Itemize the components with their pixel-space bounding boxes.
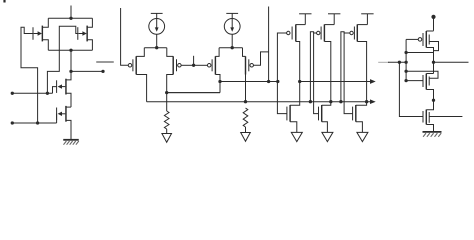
wire stage1 input stub (121, 8, 129, 65)
wire input B to M4 gate (56, 114, 58, 123)
transistor U3 (423, 110, 429, 125)
node stage2 left join (218, 80, 221, 83)
resistor R1 (164, 111, 169, 129)
wire P2B gate out (253, 52, 268, 65)
wire col1 gate feed (277, 33, 287, 114)
wire rail A (406, 52, 433, 54)
wire col2 gate feed (314, 33, 319, 114)
transistor U1 (418, 31, 429, 48)
wire U3 source lead (426, 125, 433, 132)
wire col1 stem (304, 14, 306, 25)
wire node A right (71, 70, 103, 72)
wire right stub down (433, 17, 435, 31)
node I2 out (231, 46, 234, 49)
transistor N2C (319, 105, 322, 122)
resistor R2 (243, 108, 248, 127)
wire R2 tail (245, 127, 247, 133)
node stage1 lower out (165, 91, 168, 94)
current source I2 (224, 13, 240, 47)
supply T-bar col2 (328, 13, 340, 15)
wire col2 drain vertical (322, 42, 331, 106)
wire col1 source lead (296, 24, 306, 26)
ground GND2 (162, 134, 172, 143)
node input B (11, 121, 14, 124)
wire U2 gate lead (406, 80, 423, 82)
node col2 feed (309, 100, 312, 103)
node inv1 out (298, 80, 301, 83)
wire P2B source (243, 48, 246, 57)
wire P2A drain (215, 75, 220, 93)
wire P1B gate to node (181, 64, 193, 66)
wire U3 drain lead (426, 100, 433, 109)
supply T-bar col1 (299, 13, 311, 15)
wire col2 nmos source (322, 122, 328, 133)
ground GND7 (hatched) (423, 132, 442, 137)
wire M2 drain lead (87, 18, 92, 27)
node input A junction (46, 92, 49, 95)
node input A (11, 92, 14, 95)
wire col3 nmos source (356, 122, 363, 133)
wire bottom rail (48, 49, 92, 51)
wire U3 gate feed (399, 62, 423, 116)
transistor N3C (353, 105, 356, 122)
current source I1 (149, 13, 165, 47)
wire stage2 node rail (219, 47, 242, 49)
ground GND1 (hatched) (63, 140, 79, 145)
transistor M2 (78, 26, 87, 42)
wire M3 drain lead (66, 71, 71, 80)
node inv2 out join (329, 100, 332, 103)
wire col2 source lead (324, 24, 334, 26)
wire supply stub (70, 6, 72, 19)
arrow output lower (370, 99, 376, 104)
transistor M4 (57, 106, 66, 122)
wire col3 stem (366, 14, 368, 25)
supply T-bar col3 (361, 13, 373, 15)
ground GND6 (357, 132, 368, 141)
wire U2 drain lead (426, 73, 433, 75)
node right terminal ball (431, 15, 435, 19)
wire P1A drain (136, 75, 146, 102)
node R2 top (244, 100, 247, 103)
wire U1 gate2 wrap (429, 42, 438, 51)
wire bus upper seg1 (220, 81, 278, 83)
wire U1 gate lead (406, 38, 418, 40)
node rail B tap (404, 61, 407, 64)
node rail A tap (404, 51, 407, 54)
wire col3 gate feed (344, 33, 353, 114)
node input B junction (36, 121, 39, 124)
ground GND4 (291, 132, 302, 141)
node stage1 out (192, 64, 195, 67)
wire U1-U2 link (433, 53, 435, 74)
net label stub (gray) (97, 61, 113, 63)
wire M2 gate cross-couple (47, 26, 77, 93)
wire P2B drain (245, 75, 247, 102)
wire stage1 node rail (144, 47, 167, 49)
wire stage2 out vertical (268, 7, 270, 82)
node col1 input (276, 80, 279, 83)
wire stage1 out to stage2 (194, 64, 208, 66)
wire col2 stem (333, 14, 335, 25)
wire M1 drain lead (42, 18, 48, 27)
node I1 out (155, 46, 158, 49)
wire U3 gate2 out (429, 116, 462, 118)
corner artifact (3, 0, 5, 3)
wire P1A source (136, 48, 144, 57)
transistor P1A (128, 56, 136, 74)
wire U2 source lead (426, 90, 433, 101)
transistor P2C (317, 24, 325, 41)
wire right gate vertical (405, 39, 407, 80)
transistor U2 (423, 74, 429, 90)
node U2-U3 join (432, 99, 435, 102)
wire col3 feed link (341, 32, 344, 102)
wire M4 drain lead (66, 106, 71, 108)
wire input B (12, 122, 56, 124)
transistor P1C (287, 24, 296, 41)
transistor M3 (57, 79, 66, 95)
wire bus lower (147, 101, 371, 103)
node A (69, 70, 72, 73)
node U2 gate2 tap (404, 70, 407, 73)
arrow output upper (370, 79, 376, 84)
wire U1 drain lead (426, 30, 433, 32)
wire U2 gate2 wrap (406, 71, 438, 78)
wire top rail (48, 17, 92, 19)
ground GND3 (241, 133, 251, 142)
net input stub (gray fade) (378, 61, 406, 63)
wire M1 gate path (21, 27, 38, 123)
node supply junction (69, 17, 72, 20)
wire M4 source lead (66, 120, 71, 139)
node stage2 out join (267, 80, 270, 83)
wire M3 source lead (66, 93, 71, 107)
transistor N1C (287, 105, 290, 122)
wire stage1 mid rail (167, 92, 220, 94)
node bottom rail junction (69, 49, 72, 52)
wire R1 tail (166, 129, 168, 134)
wire rail B right (434, 61, 469, 63)
wire P2A source (215, 48, 219, 57)
wire P1B source (167, 48, 173, 57)
wire col1 drain vertical (290, 42, 300, 106)
transistor P1B (173, 56, 181, 74)
node U3 feed tap (398, 61, 401, 64)
node U2 gate tap (404, 79, 407, 82)
wire U1 source lead (426, 48, 433, 53)
wire bus output line (300, 81, 371, 83)
wire col1 nmos source (290, 122, 297, 133)
transistor P3C (350, 24, 357, 41)
wire input A to M3 gate (53, 87, 57, 94)
wire rail to node A (70, 50, 72, 71)
wire M1 source lead (42, 40, 48, 51)
ground GND5 (322, 132, 333, 141)
node inv3 out join (365, 100, 368, 103)
transistor M1 (33, 26, 42, 42)
node A terminal (101, 70, 104, 73)
wire M2 source lead (87, 40, 92, 51)
wire stage1 out stub (193, 56, 195, 66)
wire mid-rail step (167, 92, 220, 94)
wire input A (12, 92, 52, 94)
wire col3 source lead (357, 24, 367, 26)
wire P1B drain (167, 75, 174, 112)
transistor P2B (246, 56, 254, 74)
node rail B join (432, 61, 435, 64)
wire col3 drain vertical (356, 42, 367, 106)
wire col2 feed link (310, 32, 313, 102)
transistor P2A (207, 56, 215, 74)
node col3 feed (339, 100, 342, 103)
